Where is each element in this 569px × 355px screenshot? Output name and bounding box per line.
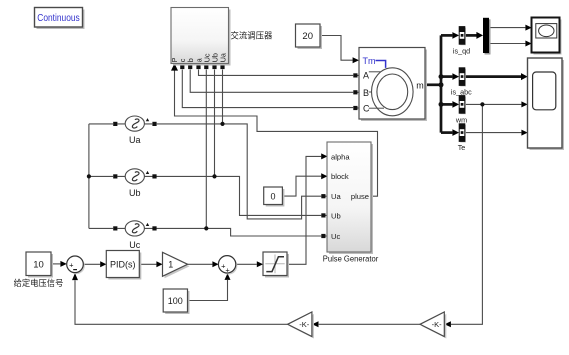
wire wm feedback down bbox=[451, 104, 482, 324]
PORT SQUARES bbox=[113, 65, 357, 238]
svg-text:交流调压器: 交流调压器 bbox=[231, 31, 273, 41]
svg-text:pluse: pluse bbox=[351, 192, 369, 201]
WIRES-THICK bus bbox=[425, 35, 521, 132]
svg-text:Ua: Ua bbox=[129, 135, 141, 145]
wire saturation to alpha bbox=[287, 156, 321, 264]
wire sum1 to PID bbox=[83, 263, 100, 265]
port sq Ua src left bbox=[113, 122, 117, 126]
wire pluse to P bbox=[175, 70, 378, 196]
arrow into demux bbox=[476, 32, 483, 39]
pin line B bbox=[369, 91, 372, 93]
node Ua tap bbox=[220, 122, 224, 126]
svg-text:alpha: alpha bbox=[331, 152, 350, 161]
saturation bbox=[263, 252, 289, 278]
sum2 bbox=[218, 256, 237, 275]
PID controller bbox=[106, 251, 141, 280]
pin line A bbox=[369, 71, 381, 73]
port sq c bbox=[180, 65, 184, 69]
arrow into xy in1 bbox=[525, 25, 531, 31]
svg-text:B: B bbox=[363, 88, 369, 98]
port sq Ub bbox=[212, 65, 216, 69]
arrow into gainK1 bbox=[312, 321, 318, 327]
wire 20 to Tm bbox=[320, 36, 353, 61]
wire Uc net bbox=[89, 228, 321, 236]
port sq motor A bbox=[353, 73, 357, 77]
arrow into sum1 bbox=[60, 261, 66, 267]
wire PID to gain1 bbox=[139, 263, 156, 265]
arrow into xy in2 bbox=[525, 41, 531, 47]
svg-text:+: + bbox=[225, 266, 230, 275]
arrow into Tm bbox=[353, 57, 359, 63]
wire 10 to sum1 bbox=[51, 263, 60, 265]
svg-text:Ua: Ua bbox=[331, 192, 341, 201]
svg-text:Ua: Ua bbox=[218, 53, 227, 62]
arrow into sel is_abc bbox=[452, 73, 459, 80]
port sq b bbox=[188, 65, 192, 69]
wire gain1 to sum2 bbox=[188, 263, 213, 265]
constant 100 bbox=[163, 289, 189, 314]
wire c to motor C bbox=[182, 70, 353, 108]
motor inner circle bbox=[377, 74, 408, 110]
port sq pulse Ua bbox=[321, 194, 325, 198]
svg-text:+: + bbox=[69, 261, 74, 270]
wire selector bus vertical bbox=[440, 35, 443, 132]
arrow into scope in1 bbox=[521, 73, 528, 80]
port sq pulse Uc bbox=[321, 234, 325, 238]
selector wm bbox=[455, 96, 467, 125]
arrow into sel is_qd bbox=[452, 32, 459, 39]
node wm feedback tap bbox=[480, 102, 484, 106]
arrow into sum2 bbox=[212, 261, 218, 267]
svg-text:100: 100 bbox=[168, 296, 183, 306]
port sq Uc src left bbox=[113, 226, 117, 230]
selector is_abc bbox=[451, 68, 472, 97]
node Uc tap bbox=[204, 226, 208, 230]
svg-text:20: 20 bbox=[302, 31, 313, 42]
wire Ua port drop bbox=[222, 70, 224, 124]
WIRES-THIN bbox=[51, 28, 525, 325]
port sq a bbox=[196, 65, 200, 69]
arrow 100 into sum2 bottom bbox=[225, 273, 231, 280]
wire demux out2 bbox=[489, 43, 525, 45]
node bus wm bbox=[439, 102, 444, 107]
wire Ua net bbox=[89, 124, 321, 219]
wire Ub port drop bbox=[214, 70, 216, 177]
svg-text:Continuous: Continuous bbox=[37, 13, 80, 24]
ARROWHEADS bbox=[60, 25, 531, 328]
arrow into alpha bbox=[321, 153, 327, 159]
arrow into sel wm bbox=[452, 101, 459, 108]
svg-text:0: 0 bbox=[270, 191, 275, 201]
svg-text:PID(s): PID(s) bbox=[110, 259, 136, 269]
port sq Ua bbox=[220, 65, 224, 69]
port sq motor B bbox=[353, 90, 357, 94]
constant 10 bbox=[14, 252, 64, 288]
arrow into PID bbox=[100, 261, 106, 267]
wire branch is_qd bbox=[441, 34, 452, 37]
wire 100 to sum2 bbox=[188, 280, 228, 301]
arrow into sel Te bbox=[452, 129, 459, 136]
svg-text:Te: Te bbox=[458, 143, 466, 152]
constant 20 bbox=[296, 24, 323, 49]
asynchronous machine U1 bbox=[359, 48, 427, 122]
svg-text:-K-: -K- bbox=[432, 320, 443, 329]
port sq Uc src right bbox=[152, 226, 156, 230]
port sq Ub src right bbox=[152, 174, 156, 178]
svg-text:10: 10 bbox=[33, 259, 44, 270]
port sq pulse Ub bbox=[321, 213, 325, 217]
constant 0 bbox=[264, 187, 285, 207]
arrow feedback into sum1 bottom bbox=[72, 273, 78, 280]
svg-text:-K-: -K- bbox=[299, 320, 310, 329]
wire Te to scope bbox=[465, 132, 522, 134]
scope bbox=[528, 58, 565, 150]
arrow into gain1 bbox=[156, 261, 162, 267]
subsystem 交流调压器 bbox=[170, 8, 273, 66]
svg-text:A: A bbox=[363, 70, 369, 80]
xy graph scope bbox=[532, 18, 562, 55]
motor port stubs bbox=[326, 75, 360, 236]
arrow into gainK2 bbox=[445, 321, 451, 327]
wire wm to scope bbox=[465, 103, 522, 105]
wire Ub net bbox=[89, 176, 321, 215]
wire m output bus bbox=[425, 83, 441, 86]
node Ub tap bbox=[212, 174, 216, 178]
node bus is_abc bbox=[439, 74, 444, 79]
AC source Ub bbox=[125, 169, 149, 198]
svg-text:1: 1 bbox=[168, 260, 173, 270]
demux bbox=[483, 18, 491, 55]
arrow into scope in2 bbox=[521, 101, 527, 107]
arrow into saturation bbox=[257, 261, 263, 267]
wire Uc port drop bbox=[205, 70, 207, 229]
svg-text:Ub: Ub bbox=[129, 188, 141, 198]
wire a to motor A bbox=[199, 70, 354, 76]
wire branch is_abc bbox=[441, 75, 452, 78]
wire 0 to block port bbox=[282, 176, 321, 196]
pin line C bbox=[369, 107, 384, 109]
motor outer circle bbox=[372, 68, 414, 116]
arrow into scope in3 bbox=[521, 130, 527, 136]
gain -K- left bbox=[288, 312, 314, 339]
wire gainK2 to gainK1 bbox=[319, 323, 420, 325]
port sq Ua src right bbox=[152, 122, 156, 126]
wire is_abc to scope bbox=[465, 75, 521, 78]
svg-text:给定电压信号: 给定电压信号 bbox=[14, 278, 64, 288]
svg-text:Uc: Uc bbox=[129, 240, 140, 250]
svg-text:Uc: Uc bbox=[331, 232, 340, 241]
svg-text:Ub: Ub bbox=[331, 211, 341, 220]
svg-text:wm: wm bbox=[455, 115, 467, 124]
svg-text:is_qd: is_qd bbox=[453, 46, 470, 55]
sum1 bbox=[67, 256, 85, 274]
arrow port P up bbox=[171, 63, 178, 70]
block Continuous (powergui) bbox=[35, 8, 85, 30]
wire demux out1 bbox=[489, 27, 525, 29]
svg-text:Pulse Generator: Pulse Generator bbox=[323, 253, 379, 263]
wire branch wm bbox=[441, 103, 452, 106]
wire branch Te bbox=[441, 131, 452, 134]
AC source Uc bbox=[125, 221, 149, 250]
arrow into block bbox=[321, 173, 327, 179]
port sq Ub src left bbox=[113, 174, 117, 178]
pulse generator subsystem bbox=[323, 142, 379, 263]
port sq Uc bbox=[204, 65, 208, 69]
selector Te bbox=[458, 124, 466, 152]
node neutral-Ub junction bbox=[87, 174, 91, 178]
wire b to motor B bbox=[190, 70, 353, 93]
AC source Ua bbox=[125, 116, 149, 145]
wire neutral bus bbox=[88, 124, 90, 228]
wire gainK1 to sum1 bbox=[75, 280, 288, 324]
svg-text:m: m bbox=[416, 81, 424, 91]
selector is_qd bbox=[453, 27, 470, 56]
svg-text:block: block bbox=[331, 172, 349, 181]
node bus m bbox=[439, 82, 444, 87]
gain 1 bbox=[163, 252, 190, 278]
wire sum2 to saturation bbox=[236, 263, 257, 265]
port sq motor C bbox=[353, 106, 357, 110]
Tm blue line bbox=[376, 61, 386, 68]
gain -K- right bbox=[420, 312, 446, 339]
svg-text:Tm: Tm bbox=[363, 56, 376, 66]
svg-text:C: C bbox=[363, 104, 370, 114]
svg-text:is_abc: is_abc bbox=[451, 87, 472, 96]
wire is_qd to demux bbox=[465, 34, 477, 37]
